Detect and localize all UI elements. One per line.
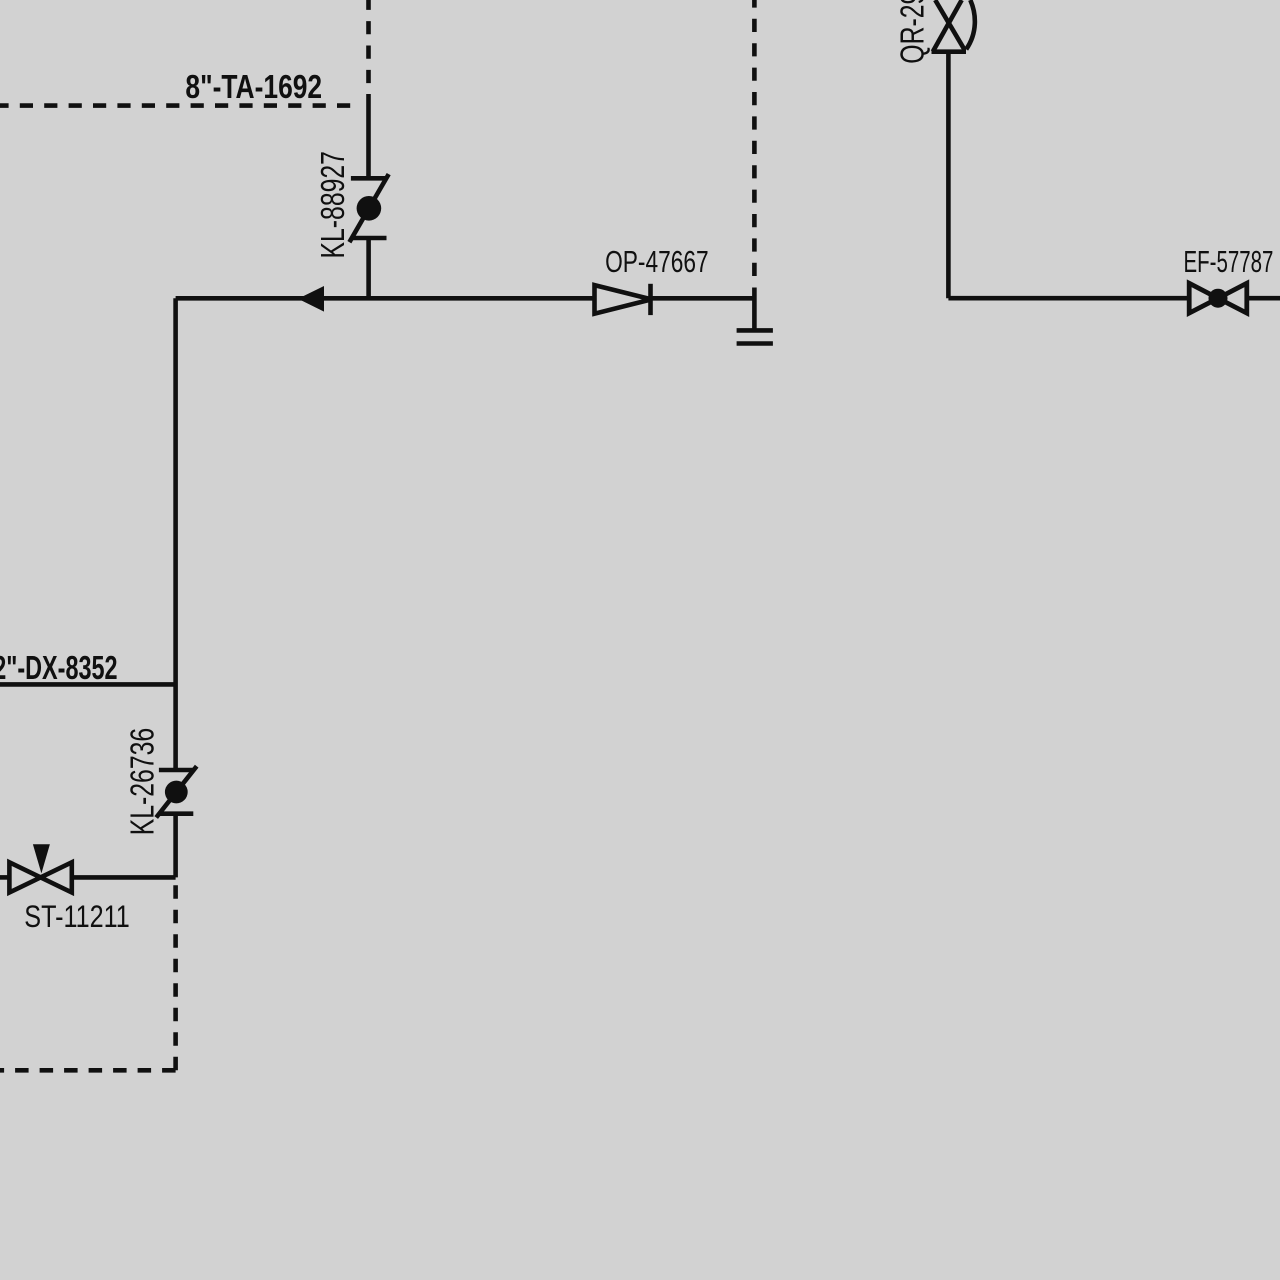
valve EF-57787 [1189,283,1247,313]
wire below valve KL-88927 [366,238,371,298]
svg-text:8"-TA-1692: 8"-TA-1692 [185,69,322,105]
svg-text:QR-29554: QR-29554 [894,0,932,64]
check valve OP-47667 [595,284,652,315]
dashed line bottom left L [173,877,178,1070]
main horizontal pipe right segment [652,296,755,301]
flow arrow on main pipe [298,286,324,312]
dashed vertical line at node junction [752,0,757,276]
valve KL-88927 [349,174,388,242]
right horizontal pipe left segment [948,296,1189,301]
pipe 2"-DX-8352 horizontal [0,682,176,687]
valve KL-26736 [156,766,197,817]
svg-text:KL-26736: KL-26736 [124,728,162,835]
wire solid drop to continuation symbol [752,288,757,331]
svg-text:ST-11211: ST-11211 [24,899,130,934]
pipe 8"-TA-1692 dashed horizontal [0,103,359,108]
left vertical pipe upper segment [173,298,178,770]
wire between valve ST-11211 and left pipe corner [72,875,176,880]
wire below valve QR-29 [946,52,951,299]
svg-text:OP-47667: OP-47667 [605,245,709,279]
valve ST-11211 [9,844,71,892]
right horizontal pipe right segment [1247,296,1280,301]
wire left of valve ST-11211 [0,875,9,880]
svg-text:KL-88927: KL-88927 [315,151,353,258]
svg-text:EF-57787: EF-57787 [1184,244,1274,279]
pipe 8"-TA-1692 dashed vertical drop [366,0,371,94]
left vertical pipe lower segment [173,814,178,878]
wire solid vertical into valve KL-88927 [366,94,371,178]
control valve QR-29 top [932,0,975,52]
line continuation double bar symbol [737,330,773,343]
svg-text:2"-DX-8352: 2"-DX-8352 [0,650,118,687]
main horizontal pipe left segment [176,296,595,301]
